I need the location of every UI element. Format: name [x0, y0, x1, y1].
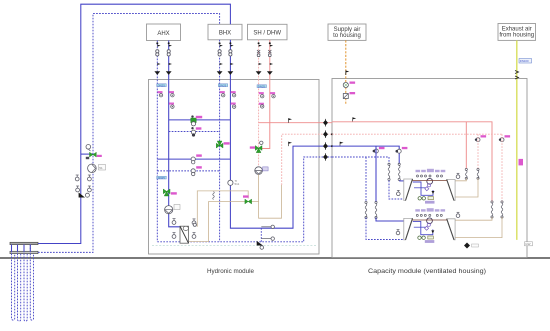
HP1 evaporator sensor: [397, 190, 401, 195]
valve V301: [191, 127, 201, 137]
vent assembly: [261, 225, 274, 242]
exhaust air duct: [516, 40, 518, 240]
AHX box: [147, 24, 181, 41]
HP2 discharge line: [413, 219, 447, 221]
riser sensor TI102: [75, 175, 79, 181]
svg-text:DN25: DN25: [158, 84, 166, 88]
svg-text:DN25: DN25: [219, 84, 227, 88]
pump P320: [255, 167, 268, 175]
sensor TI314: [220, 91, 225, 97]
DHW tan circuit upper wire: [197, 191, 248, 227]
flex hose lower supply: [375, 201, 377, 218]
header H1 supply wire: [169, 119, 231, 121]
hydronic interior: AHX return pipe: [156, 80, 158, 242]
AHX return fittings: [154, 42, 160, 75]
capacity module enclosure: [332, 79, 527, 258]
HP1 discharge line: [413, 180, 447, 182]
DN25 label BHX: [218, 84, 228, 88]
capacity: heating supply wire: [332, 122, 492, 202]
DN25 label AHX: [157, 84, 167, 88]
svg-text:BHX: BHX: [219, 31, 231, 37]
svg-text:DN25: DN25: [258, 85, 266, 89]
HP2 compressor: [427, 218, 433, 226]
lower HP cold connections: [376, 218, 404, 222]
hydronic interior: BHX return pipe: [219, 80, 221, 242]
BHX box: [208, 24, 242, 40]
borehole U-tube 1: [12, 245, 15, 321]
SH/DHW box: [248, 24, 288, 40]
flex hose upper return: [388, 163, 390, 180]
svg-text:DN25: DN25: [158, 176, 166, 180]
heating return line to capacity: [282, 134, 332, 185]
valve V303: [191, 166, 202, 176]
sensor TI511: [228, 179, 240, 186]
supply air box: [328, 24, 366, 40]
svg-text:AHX: AHX: [157, 31, 169, 37]
riser sensor TI103: [88, 175, 92, 181]
SH/DHW return drop wire: [258, 40, 260, 80]
flex hose upper supply: [398, 163, 400, 180]
header H2 return wire: [169, 131, 220, 133]
heating supply line to capacity: [259, 122, 332, 124]
HP1 suction piping: [413, 182, 435, 195]
svg-text:Hydronic module: Hydronic module: [207, 269, 255, 275]
hydronic interior: SH return pipe: [258, 80, 260, 175]
hydronic interior: BHX supply pipe loop: [230, 80, 332, 229]
HP1 oil pumps: [418, 197, 434, 200]
riser valve V101: [86, 152, 102, 159]
supply air flag: [346, 71, 350, 76]
HP2 sensor labels: [415, 208, 445, 216]
AHX return drop wire: [156, 41, 158, 80]
mixing valve V306 on SH return: [250, 141, 263, 153]
BHX supply drop wire: [229, 40, 231, 80]
svg-text:GW: GW: [525, 242, 530, 246]
gap meter M3: [323, 142, 328, 150]
exhaust flow marks: [515, 71, 519, 80]
sensor TI313: [169, 103, 174, 109]
tank sensor S2: [192, 219, 196, 225]
sensor TI315: [231, 91, 236, 97]
svg-text:51: 51: [99, 166, 103, 170]
brine supply riser wire: [38, 4, 230, 243]
borehole manifold supply bar: [10, 242, 38, 244]
AHX supply fittings: [166, 42, 172, 75]
valve CV2: [396, 147, 408, 153]
DHW beige loop wire: [259, 185, 282, 218]
capacity: cold return wire: [332, 157, 389, 164]
svg-text:SH / DHW: SH / DHW: [253, 31, 281, 37]
SH supply fittings: [267, 42, 273, 75]
HP2 condenser sensor: [456, 212, 460, 217]
junction dot capacity inlet A: [331, 133, 333, 135]
riser sensor: [86, 145, 91, 152]
tank sensor S1: [172, 219, 176, 225]
drain valve: [257, 241, 264, 249]
flex hose cond lower supply: [491, 201, 493, 218]
BHX return fittings: [217, 42, 223, 75]
upper HP cold connections: [399, 180, 404, 182]
HP1 condenser sensor: [456, 173, 460, 178]
exhaust DN label: [519, 59, 532, 64]
SH/DHW supply drop wire: [269, 40, 271, 80]
condensate line: [152, 245, 317, 247]
header H4 return wire: [157, 170, 219, 172]
hydronic interior: SH supply pipe: [262, 80, 270, 149]
svg-text:511: 511: [235, 182, 240, 186]
heat pump HP1 evaporator: [404, 179, 413, 201]
DN25 label lower: [157, 176, 167, 180]
flex hose cond upper: [465, 168, 467, 179]
heat pump HP1 condenser: [447, 180, 455, 201]
gap meter M2: [323, 130, 328, 138]
GW label: [525, 242, 533, 246]
sensor TI316: [231, 103, 236, 109]
valve CV1: [373, 147, 385, 153]
tank sensor S4: [192, 233, 196, 239]
supply fan: [343, 82, 355, 88]
heat pump HP2 evaporator: [404, 218, 413, 239]
borehole U-tube 3: [24, 245, 27, 322]
lower HP cold supply drop: [375, 146, 377, 202]
lower HP cold return drop: [365, 157, 367, 202]
HP2 oil pumps: [418, 236, 434, 239]
flow flag F4: [340, 142, 344, 146]
DN25 label SH: [257, 85, 267, 89]
mixing valve V305: [163, 189, 177, 196]
hydronic module enclosure: [149, 80, 320, 255]
hydronic interior: AHX supply pipe: [169, 80, 180, 227]
bottom return header wire: [157, 157, 332, 242]
flex hose cond lower return: [501, 201, 503, 218]
HP2 suction piping: [413, 221, 435, 234]
sensor near tank: [193, 223, 196, 226]
HP1 sensor labels: [416, 169, 446, 177]
HP2 label B508: [425, 240, 435, 243]
BHX return drop wire: [219, 40, 221, 80]
buffer tank: [189, 227, 209, 242]
HP1 label B507: [425, 201, 435, 204]
header H3 supply wire: [157, 158, 230, 160]
sensor TI317: [259, 92, 264, 98]
pump P300: [191, 115, 202, 126]
borehole U-tube 2: [18, 245, 21, 322]
ground line: [0, 257, 550, 259]
DHW flex coil: [213, 192, 215, 200]
capacity: heating return wire: [332, 133, 502, 135]
capacity: cold supply wire: [332, 146, 399, 164]
valve V330: [243, 195, 252, 204]
riser pump P101: [88, 164, 106, 173]
junction dot capacity inlet B: [331, 145, 333, 147]
valve V302: [191, 154, 202, 164]
exhaust FI label: [519, 159, 524, 166]
HP1 compressor: [427, 178, 433, 186]
supply damper: [343, 92, 355, 99]
gap meter M1: [323, 119, 328, 127]
sensor TI319: [259, 103, 264, 108]
borehole U-tube 4: [30, 245, 33, 321]
svg-text:DN160: DN160: [520, 59, 529, 63]
pump P310: [165, 205, 180, 214]
svg-text:Capacity module (ventilated ho: Capacity module (ventilated housing): [368, 269, 486, 275]
svg-text:to housing: to housing: [333, 33, 361, 39]
riser strainer valve: [79, 193, 90, 198]
heat pump HP2 condenser: [447, 219, 455, 240]
borehole manifold return bar: [10, 251, 38, 253]
sensor TI311: [158, 91, 163, 97]
flex hose cond upper return: [477, 168, 479, 179]
exhaust air box: [498, 24, 536, 41]
BHX supply fittings: [228, 42, 234, 75]
svg-text:from housing: from housing: [499, 32, 534, 38]
flow flag F2: [289, 142, 293, 146]
supply air duct: [345, 40, 347, 103]
riser sensor PI104: [76, 186, 80, 192]
riser crossover wire: [81, 153, 93, 155]
condenser return branch upper: [475, 135, 486, 142]
drain diamond: [464, 243, 479, 249]
brine return riser wire: [38, 14, 220, 253]
sensor TI312: [169, 91, 174, 97]
valve V304 on BHX return: [216, 141, 229, 148]
sensor TI318: [270, 92, 275, 98]
riser sensor PI105: [88, 186, 92, 192]
flow flag F3: [353, 117, 357, 121]
gap meter M4: [323, 153, 328, 161]
DHW tan circuit lower wire: [209, 174, 259, 227]
AHX supply drop wire: [168, 41, 170, 80]
flow flag F1: [289, 118, 293, 122]
heat exchanger HX1: [180, 226, 189, 243]
tank sensor S3: [172, 233, 176, 239]
flex hose lower return: [365, 201, 367, 218]
HP2 evaporator sensor: [396, 230, 400, 235]
condenser return branch lower: [499, 135, 510, 142]
condenser supply branch upper: [465, 122, 467, 169]
SH return fittings: [256, 42, 262, 75]
